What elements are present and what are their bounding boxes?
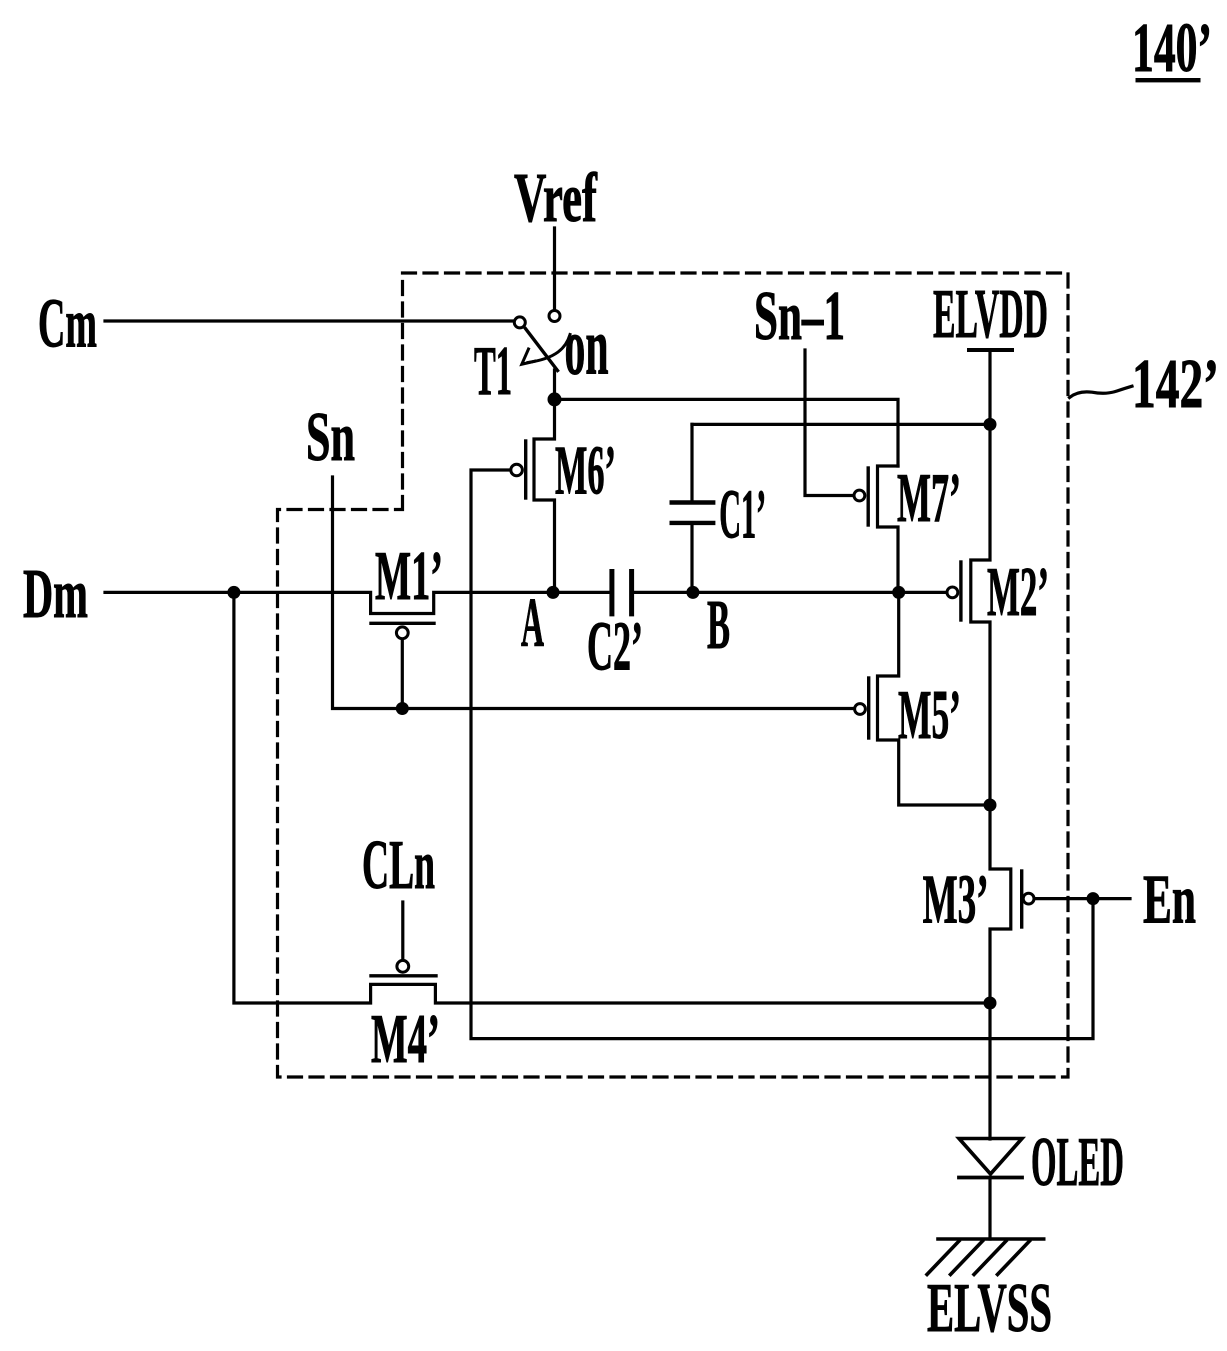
label C2' [587, 608, 643, 686]
ground ELVSS [927, 1239, 1044, 1275]
wire switch to node [553, 370, 556, 399]
label Sn [306, 398, 355, 476]
label Cm [38, 285, 97, 362]
label CLn [362, 827, 435, 904]
svg-text:Sn: Sn [306, 398, 355, 476]
node A [547, 586, 560, 599]
label M2' [987, 553, 1049, 630]
svg-text:B: B [707, 586, 730, 663]
node En branch [1087, 892, 1100, 905]
wire Cm row [105, 319, 513, 322]
transistor M3' gate [1022, 871, 1034, 927]
label Dm [23, 556, 88, 632]
svg-text:Cm: Cm [38, 285, 97, 362]
label M7' [897, 459, 961, 537]
label M3' [923, 861, 989, 938]
wire CLn lead [401, 902, 404, 959]
node ELVDD rail / C1' [984, 418, 997, 431]
svg-text:Sn–1: Sn–1 [754, 276, 845, 354]
label Sn-1 [754, 276, 845, 354]
diode OLED [959, 1139, 1022, 1240]
svg-text:140’: 140’ [1132, 9, 1212, 87]
svg-text:OLED: OLED [1031, 1122, 1124, 1200]
dashed box 142' outline [278, 273, 1069, 1077]
transistor M5' gate [855, 678, 869, 738]
svg-text:CLn: CLn [362, 827, 435, 904]
label En [1143, 860, 1196, 938]
svg-text:A: A [521, 584, 544, 661]
label T1 [474, 331, 512, 409]
node Sn row / M1' gate [396, 702, 409, 715]
node M5'/M2' drain junction [984, 799, 997, 812]
wire C1' top to ELVDD rail [692, 423, 990, 426]
wire Dm row with M1' source/drain tub [105, 592, 609, 613]
capacitor C2' [612, 572, 632, 614]
wire B row to M2' gate [634, 591, 946, 594]
svg-text:M3’: M3’ [923, 861, 989, 938]
wire T1 node to M7' top [555, 399, 899, 466]
wire Sn lead and row to M5' gate [333, 477, 854, 709]
wire Vref lead [553, 228, 556, 309]
wire M6' gate to En net (left-down-right-up loop) [471, 470, 1093, 1039]
svg-text:M2’: M2’ [987, 553, 1049, 630]
svg-text:Vref: Vref [514, 159, 598, 236]
transistor M5' body [878, 592, 991, 805]
svg-text:ELVSS: ELVSS [927, 1270, 1052, 1347]
label on [565, 302, 609, 393]
power ELVDD bar [969, 348, 1012, 352]
node B [686, 586, 699, 599]
node M7' drain on B row [892, 586, 905, 599]
label Vref [514, 159, 598, 236]
transistor M4' gate [371, 960, 436, 975]
wire Dm branch down and M4' row with tub to M3' source node [234, 592, 990, 1003]
transistor M1' gate [371, 623, 434, 708]
svg-text:M7’: M7’ [897, 459, 961, 537]
svg-text:M6’: M6’ [555, 431, 616, 508]
label M6' [555, 431, 616, 508]
node M3' source / M4' row [984, 997, 997, 1010]
transistor M2' gate [947, 562, 961, 620]
label 142' with leader squiggle [1070, 345, 1219, 422]
label M4' [371, 1001, 440, 1078]
transistor M7' gate [854, 468, 868, 525]
label 140' [1132, 9, 1212, 87]
transistor M7' body [878, 466, 899, 592]
svg-text:on: on [565, 302, 609, 393]
svg-text:C2’: C2’ [587, 608, 643, 686]
label OLED [1031, 1122, 1124, 1200]
label A [521, 584, 544, 661]
wire ELVDD rail with M2' and M3' source/drain tubs down to OLED [971, 350, 1011, 1139]
svg-text:M5’: M5’ [898, 677, 961, 754]
label B [707, 586, 730, 663]
wire M3' gate to En [1035, 897, 1130, 900]
svg-text:ELVDD: ELVDD [933, 275, 1048, 353]
capacitor C1' [672, 424, 714, 592]
svg-text:Dm: Dm [23, 556, 88, 632]
svg-text:En: En [1143, 860, 1196, 938]
label C1' [719, 475, 766, 553]
node Dm branch [227, 586, 240, 599]
transistor M6' gate [511, 441, 526, 498]
switch T1 [514, 311, 570, 371]
transistor M6' body [534, 399, 555, 592]
svg-text:C1’: C1’ [719, 475, 766, 553]
label ELVSS [927, 1270, 1052, 1347]
svg-text:M4’: M4’ [371, 1001, 440, 1078]
label M1' [375, 538, 443, 615]
svg-text:142’: 142’ [1132, 345, 1219, 422]
label ELVDD [933, 275, 1048, 353]
node T1 output [548, 392, 562, 406]
svg-text:M1’: M1’ [375, 538, 443, 615]
label M5' [898, 677, 961, 754]
wire Sn-1 lead to M7' gate [805, 350, 853, 496]
svg-text:T1: T1 [474, 331, 512, 409]
